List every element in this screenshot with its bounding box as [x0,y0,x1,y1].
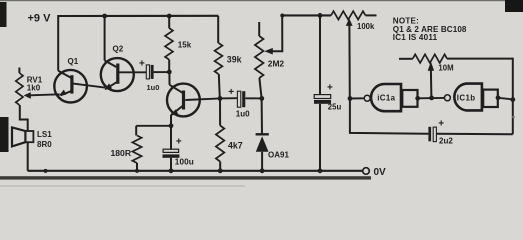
svg-text:1u0: 1u0 [236,109,250,118]
svg-text:1k0: 1k0 [27,84,41,93]
svg-text:Q1: Q1 [68,57,79,66]
svg-text:8R0: 8R0 [37,140,52,149]
svg-text:1u0: 1u0 [147,83,160,92]
svg-text:10M: 10M [438,63,453,72]
svg-text:IC1 IS 4011: IC1 IS 4011 [393,33,438,42]
svg-text:iC1a: iC1a [377,94,395,103]
svg-text:2u2: 2u2 [439,137,453,146]
svg-text:OA91: OA91 [268,150,289,159]
svg-text:+: + [139,59,145,70]
svg-text:15k: 15k [178,41,192,50]
svg-text:2M2: 2M2 [268,58,285,68]
svg-text:+: + [327,82,333,93]
svg-text:+: + [228,87,234,98]
svg-text:25u: 25u [328,103,342,112]
svg-text:0V: 0V [374,167,387,178]
svg-text:100k: 100k [357,22,375,31]
svg-text:180R: 180R [111,148,132,158]
svg-text:4k7: 4k7 [228,140,243,150]
svg-text:+9 V: +9 V [28,12,52,24]
svg-text:100u: 100u [175,157,194,166]
svg-text:+: + [176,137,182,148]
svg-text:+: + [438,119,444,130]
svg-text:Q2: Q2 [113,45,124,54]
svg-text:IC1b: IC1b [457,93,476,102]
svg-text:LS1: LS1 [37,130,52,139]
svg-text:39k: 39k [227,54,242,64]
